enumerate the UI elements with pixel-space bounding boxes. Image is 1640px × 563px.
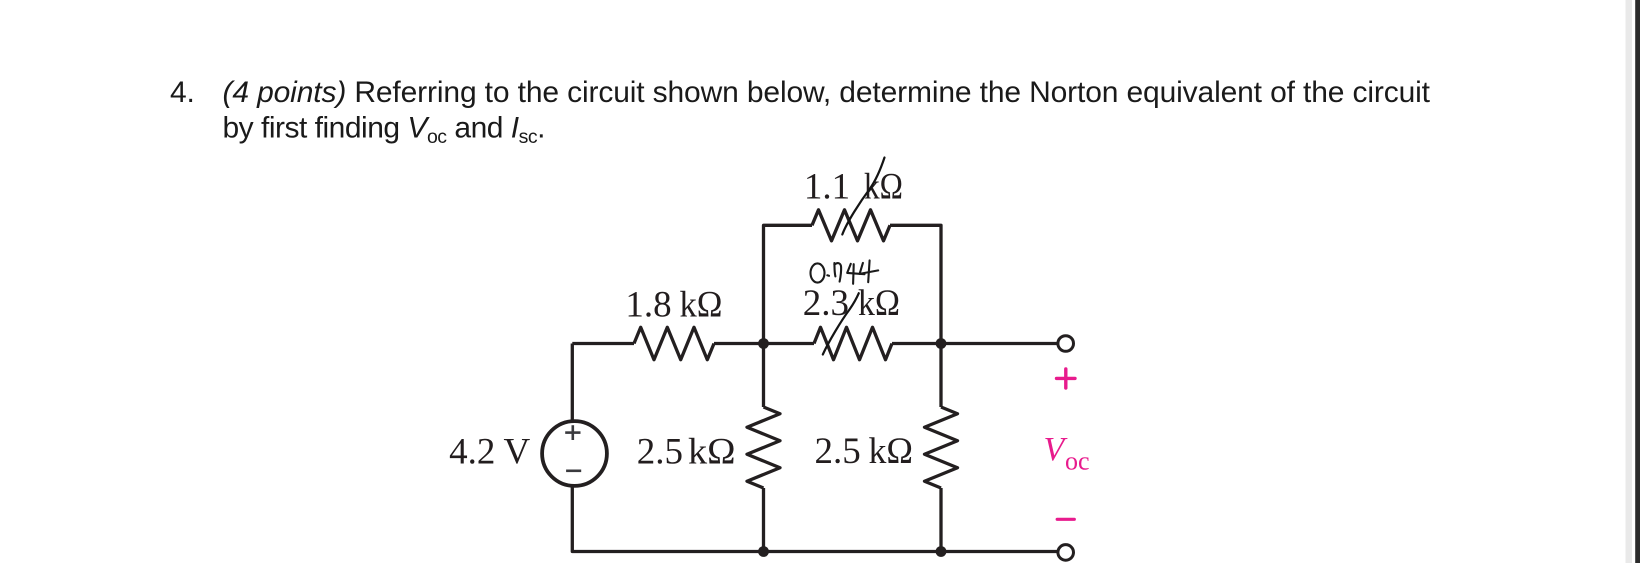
wire: left riser of top branch <box>764 225 813 343</box>
svg-text:2.5: 2.5 <box>815 431 861 472</box>
svg-text:4.: 4. <box>170 76 195 109</box>
wire: left 2.5k to bottom rail <box>762 488 765 552</box>
wire: middle left segment <box>572 342 634 345</box>
wire: source branch upper <box>571 344 574 422</box>
open terminal (top) <box>1058 336 1074 352</box>
svg-text:kΩ: kΩ <box>688 431 736 472</box>
svg-text:kΩ: kΩ <box>858 283 900 324</box>
handwritten strike through 1.1 kohm <box>842 158 884 235</box>
wire: node A to 2.3k <box>764 342 815 345</box>
open terminal (bottom) <box>1058 545 1074 561</box>
svg-text:2.3: 2.3 <box>803 283 849 324</box>
Voc minus polarity mark <box>1057 518 1074 521</box>
handwritten annotation 0.744 <box>811 260 879 283</box>
wire: 2.3k to node B <box>892 342 941 345</box>
svg-text:by first finding Voc and Isc.: by first finding Voc and Isc. <box>223 112 545 149</box>
resistor 2.3 kohm <box>814 327 892 359</box>
svg-text:kΩ: kΩ <box>869 431 914 472</box>
svg-text:(4 points) Referring to the ci: (4 points) Referring to the circuit show… <box>223 76 1431 109</box>
svg-text:2.5: 2.5 <box>637 431 683 472</box>
svg-text:4.2: 4.2 <box>449 431 495 472</box>
svg-text:oc: oc <box>1065 447 1090 476</box>
voltage source 4.2 V <box>542 421 607 486</box>
svg-text:1.1: 1.1 <box>804 166 850 207</box>
node A junction dot (top) <box>758 338 769 349</box>
wire: source branch lower + bottom rail <box>572 486 1058 552</box>
wire: right 2.5k to bottom rail <box>939 488 942 552</box>
wire: node A down to resistor <box>762 344 765 408</box>
resistor 2.5 kohm (left vertical) <box>747 407 780 488</box>
resistor 1.1 kohm (top branch) <box>812 210 890 241</box>
wire: node B to top terminal <box>941 342 1058 345</box>
Voc plus polarity mark <box>1057 369 1076 388</box>
wire: node B down to resistor <box>939 344 942 408</box>
junction dot bottom left <box>758 546 769 557</box>
resistor 1.8 kohm <box>634 327 714 359</box>
wire: right riser of top branch <box>890 225 941 343</box>
resistor 2.5 kohm (right vertical) <box>925 407 958 488</box>
svg-text:V: V <box>504 431 531 472</box>
node B junction dot (top) <box>936 338 947 349</box>
wire: middle segment to node A <box>714 342 764 345</box>
junction dot bottom right <box>936 546 947 557</box>
svg-text:kΩ: kΩ <box>680 284 723 325</box>
handwritten strike through 2.3 kohm <box>823 293 859 354</box>
svg-text:1.8: 1.8 <box>625 284 671 325</box>
